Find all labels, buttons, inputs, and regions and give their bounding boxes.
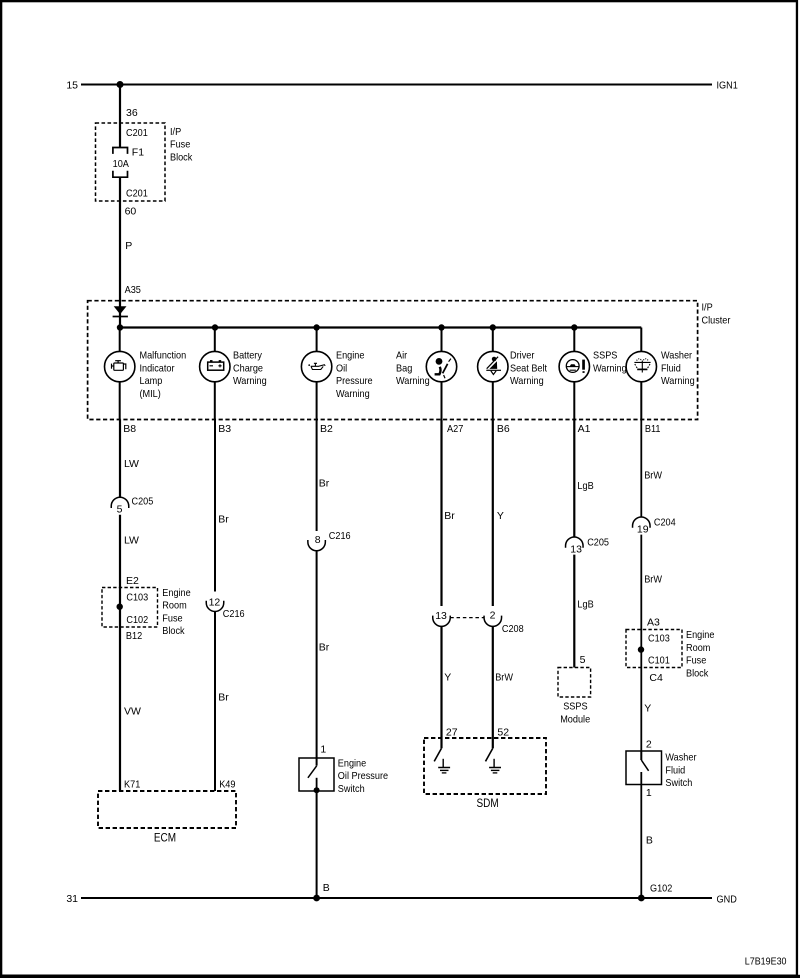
svg-text:I/P: I/P	[702, 301, 713, 313]
junction fuse block right	[638, 646, 644, 652]
wire bus to MIL lamp	[119, 328, 121, 353]
svg-text:L7B19E30: L7B19E30	[745, 956, 787, 968]
svg-text:31: 31	[66, 893, 78, 905]
svg-text:Fuse: Fuse	[162, 612, 182, 624]
svg-text:Engine: Engine	[686, 629, 715, 641]
connector C205 pin 13	[566, 537, 584, 548]
svg-text:C216: C216	[329, 530, 351, 542]
svg-text:15: 15	[66, 79, 78, 91]
svg-text:Br: Br	[444, 510, 455, 522]
svg-text:C4: C4	[649, 672, 663, 684]
svg-text:VW: VW	[124, 706, 141, 718]
wire Br to ECM	[214, 612, 216, 792]
svg-text:Malfunction: Malfunction	[140, 350, 187, 362]
svg-text:K71: K71	[124, 779, 140, 791]
wire B6 Y upper	[492, 420, 494, 607]
svg-text:Cluster: Cluster	[702, 315, 731, 327]
label Washer Fluid Warning	[661, 350, 695, 388]
junction fuse tap	[117, 81, 124, 88]
svg-text:BrW: BrW	[644, 574, 662, 586]
svg-text:Washer: Washer	[665, 752, 697, 764]
fuse F1 10A	[113, 148, 128, 178]
svg-text:Block: Block	[170, 151, 193, 163]
svg-text:Fluid: Fluid	[665, 765, 685, 777]
svg-text:Washer: Washer	[661, 350, 693, 362]
svg-text:B2: B2	[320, 423, 333, 435]
svg-text:Pressure: Pressure	[336, 375, 373, 387]
svg-text:1: 1	[646, 787, 652, 799]
svg-text:52: 52	[497, 727, 509, 739]
svg-text:A1: A1	[578, 423, 591, 435]
icon seat belt	[486, 357, 501, 375]
svg-text:Y: Y	[497, 510, 504, 522]
label Battery Charge Warning	[233, 350, 267, 388]
indicator lamp washer fluid	[626, 351, 656, 381]
wire MIL lamp down	[119, 381, 121, 419]
svg-text:P: P	[125, 240, 132, 252]
wire bus to washer fluid lamp	[640, 328, 642, 353]
svg-text:C205: C205	[132, 495, 154, 507]
svg-text:SDM: SDM	[477, 798, 499, 810]
switch SDM pin 52	[486, 748, 493, 761]
svg-text:Fuse: Fuse	[170, 139, 190, 151]
svg-text:5: 5	[580, 654, 586, 666]
icon washer fluid	[634, 359, 650, 373]
wire engine oil pressure lamp down	[316, 381, 318, 419]
svg-text:C201: C201	[126, 187, 148, 199]
svg-text:SSPS: SSPS	[593, 350, 617, 362]
svg-text:C101: C101	[648, 655, 670, 667]
wire BrW to fuse block	[640, 535, 642, 751]
wire A27 Br upper	[440, 420, 442, 607]
cluster bus wire	[120, 326, 641, 328]
svg-text:27: 27	[446, 727, 458, 739]
svg-text:(MIL): (MIL)	[140, 388, 161, 400]
svg-text:Engine: Engine	[336, 350, 365, 362]
label Washer Fluid Switch	[665, 752, 697, 790]
svg-text:Fluid: Fluid	[661, 362, 681, 374]
label Driver Seat Belt Warning	[510, 350, 547, 388]
block label Engine Room Fuse Block right	[686, 629, 715, 679]
wire seat belt lamp down	[492, 381, 494, 419]
svg-text:Driver: Driver	[510, 350, 535, 362]
wire BrW to SDM	[492, 626, 494, 748]
svg-text:Br: Br	[218, 514, 229, 526]
svg-text:Seat Belt: Seat Belt	[510, 362, 547, 374]
switch SDM pin 27	[434, 748, 441, 761]
indicator lamp air bag	[426, 351, 456, 381]
wire A1 LgB upper	[573, 420, 575, 538]
wire bus to SSPS lamp	[573, 328, 575, 353]
connector link C208	[450, 617, 484, 619]
svg-text:13: 13	[435, 610, 447, 622]
svg-text:A35: A35	[125, 284, 141, 296]
svg-text:C103: C103	[126, 592, 148, 604]
junction fuse block left	[117, 604, 123, 610]
svg-text:12: 12	[209, 596, 221, 608]
svg-text:Air: Air	[396, 350, 408, 362]
wire bus to battery charge lamp	[214, 328, 216, 353]
svg-text:F1: F1	[132, 147, 144, 159]
wire ignition to fuse F1	[119, 85, 121, 148]
connector C205 pin 5	[111, 497, 129, 508]
wire bus to seat belt lamp	[492, 328, 494, 353]
svg-text:Warning: Warning	[396, 375, 430, 387]
svg-text:13: 13	[570, 544, 582, 556]
svg-text:Oil Pressure: Oil Pressure	[338, 770, 388, 782]
wire air bag lamp down	[441, 381, 443, 419]
svg-text:Module: Module	[560, 713, 590, 725]
svg-text:Room: Room	[162, 600, 187, 612]
I/P fuse block	[96, 123, 166, 201]
svg-text:10A: 10A	[113, 158, 129, 170]
arrow into cluster A35	[113, 306, 128, 316]
label SSPS Warning	[593, 350, 627, 375]
block label I/P Fuse Block	[170, 126, 193, 164]
label Malfunction Indicator Lamp (MIL)	[140, 350, 187, 400]
svg-text:ECM: ECM	[154, 833, 176, 845]
wire SSPS lamp down	[573, 381, 575, 419]
svg-text:C201: C201	[126, 127, 148, 139]
svg-text:C102: C102	[126, 614, 148, 626]
indicator lamp battery charge	[200, 351, 230, 381]
label Air Bag Warning	[396, 350, 430, 388]
svg-text:LW: LW	[124, 534, 139, 546]
wire B8 LW upper	[119, 420, 121, 498]
svg-text:A3: A3	[647, 617, 660, 629]
svg-text:19: 19	[637, 524, 649, 536]
svg-text:I/P: I/P	[170, 126, 181, 138]
icon engine MIL	[112, 361, 126, 371]
svg-text:Battery: Battery	[233, 350, 263, 362]
wire B2 Br upper	[316, 420, 318, 532]
SSPS module	[558, 668, 591, 698]
svg-text:Fuse: Fuse	[686, 655, 706, 667]
ground SDM pin 27	[438, 759, 450, 773]
connector C208 pin 2	[484, 616, 502, 627]
svg-text:Engine: Engine	[162, 587, 191, 599]
indicator lamp seat belt	[478, 351, 508, 381]
svg-text:Bag: Bag	[396, 362, 412, 374]
svg-text:Br: Br	[319, 478, 330, 490]
svg-text:BrW: BrW	[495, 672, 513, 684]
connector C208 pin 13	[433, 616, 451, 627]
indicator lamp engine oil pressure	[301, 351, 331, 381]
svg-text:B12: B12	[126, 630, 142, 642]
washer fluid switch	[626, 751, 662, 785]
svg-text:SSPS: SSPS	[563, 700, 587, 712]
junction bus oil	[313, 324, 319, 330]
wire Br to oil switch	[316, 551, 318, 766]
indicator lamp SSPS	[559, 351, 589, 381]
svg-text:Charge: Charge	[233, 362, 263, 374]
svg-text:Engine: Engine	[338, 757, 367, 769]
wire circuit 15 ignition rail	[81, 84, 712, 86]
svg-text:60: 60	[125, 205, 137, 217]
connector C204 pin 19	[633, 517, 651, 528]
junction bus MIL	[117, 324, 123, 330]
wire LgB to SSPS	[573, 555, 575, 668]
block label Engine Room Fuse Block left	[162, 587, 191, 637]
wire B11 BrW upper	[640, 420, 642, 518]
wire bus to engine oil pressure lamp	[316, 328, 318, 353]
junction bus battery	[212, 324, 218, 330]
wire washer fluid lamp down	[640, 381, 642, 419]
svg-text:E2: E2	[126, 575, 139, 587]
engine room fuse block left	[102, 588, 158, 628]
svg-text:Lamp: Lamp	[140, 375, 163, 387]
svg-text:BrW: BrW	[644, 470, 662, 482]
junction bus seatbelt	[490, 324, 496, 330]
svg-text:Switch: Switch	[338, 783, 365, 795]
svg-text:C208: C208	[502, 623, 524, 635]
junction G102	[638, 895, 645, 902]
svg-text:IGN1: IGN1	[717, 80, 738, 92]
wire Y to SDM	[440, 626, 442, 748]
svg-text:2: 2	[646, 739, 652, 751]
svg-text:Room: Room	[686, 642, 711, 654]
svg-text:C216: C216	[223, 608, 245, 620]
svg-text:Y: Y	[644, 703, 651, 715]
icon air bag	[435, 358, 451, 378]
wire P fuse to cluster	[119, 177, 121, 327]
svg-text:C205: C205	[587, 536, 609, 548]
I/P cluster	[88, 301, 698, 420]
svg-text:Warning: Warning	[510, 375, 544, 387]
svg-text:8: 8	[315, 534, 321, 546]
junction bus airbag	[438, 324, 444, 330]
svg-text:B3: B3	[218, 423, 231, 435]
svg-text:Warning: Warning	[233, 375, 267, 387]
svg-text:Oil: Oil	[336, 362, 347, 374]
svg-text:Y: Y	[444, 672, 451, 684]
svg-text:GND: GND	[717, 894, 738, 906]
SDM	[424, 738, 546, 794]
svg-text:1: 1	[320, 744, 326, 756]
wire LW lower	[119, 515, 121, 791]
svg-text:Block: Block	[162, 625, 185, 637]
svg-text:LW: LW	[124, 458, 139, 470]
label Engine Oil Pressure Switch	[338, 757, 388, 795]
svg-text:36: 36	[126, 107, 138, 119]
svg-text:Warning: Warning	[661, 375, 695, 387]
svg-text:LgB: LgB	[577, 480, 593, 492]
engine room fuse block right	[626, 630, 682, 668]
svg-text:2: 2	[490, 610, 496, 622]
svg-text:B: B	[646, 834, 653, 846]
wire circuit 31 ground rail	[81, 897, 712, 899]
icon battery	[208, 360, 224, 370]
icon oil can	[308, 363, 325, 369]
junction bus SSPS	[571, 324, 577, 330]
svg-text:B11: B11	[645, 423, 661, 435]
svg-text:Br: Br	[218, 692, 229, 704]
ground SDM pin 52	[489, 759, 501, 773]
block label SSPS Module	[560, 700, 590, 725]
svg-text:B: B	[323, 882, 330, 894]
svg-text:C204: C204	[654, 516, 676, 528]
junction oil ground	[313, 895, 320, 902]
wire battery charge lamp down	[214, 381, 216, 419]
svg-text:A27: A27	[447, 423, 463, 435]
svg-text:Warning: Warning	[336, 388, 370, 400]
label Engine Oil Pressure Warning	[336, 350, 373, 400]
indicator lamp MIL	[105, 351, 135, 381]
svg-text:LgB: LgB	[577, 599, 593, 611]
connector C216 pin 12	[206, 601, 224, 612]
block label I/P Cluster	[702, 301, 731, 326]
svg-text:Block: Block	[686, 667, 709, 679]
svg-text:Warning: Warning	[593, 362, 627, 374]
svg-text:B8: B8	[123, 423, 136, 435]
svg-text:K49: K49	[219, 779, 235, 791]
wire B3 Br upper	[214, 420, 216, 592]
svg-text:Indicator: Indicator	[140, 362, 175, 374]
svg-text:Switch: Switch	[665, 777, 692, 789]
svg-text:G102: G102	[650, 883, 672, 895]
svg-text:C103: C103	[648, 633, 670, 645]
wire bus to air bag lamp	[441, 328, 443, 353]
svg-text:Br: Br	[319, 642, 330, 654]
engine oil pressure switch	[299, 758, 334, 793]
svg-text:B6: B6	[497, 423, 510, 435]
ECM	[98, 791, 236, 828]
svg-text:5: 5	[117, 504, 123, 516]
connector C216 pin 8	[308, 540, 326, 551]
wire B to ground rail	[316, 791, 318, 898]
wire B to G102	[640, 785, 642, 899]
icon SSPS steering wheel	[566, 360, 585, 373]
